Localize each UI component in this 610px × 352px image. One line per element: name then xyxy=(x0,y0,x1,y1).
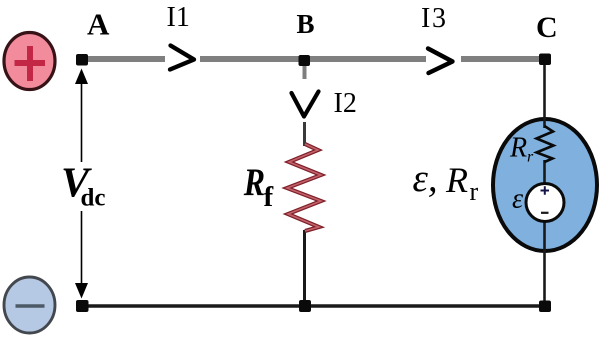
Vdc measuring arrow lower line xyxy=(81,211,83,288)
emf minus mark xyxy=(541,212,549,214)
wire top segment I1 to B xyxy=(200,56,303,62)
resistor Rf highlight xyxy=(287,144,321,231)
current arrow I2 xyxy=(292,92,319,117)
battery ellipse (real battery with emf and internal resistance) xyxy=(493,119,597,251)
svg-text:I1: I1 xyxy=(167,2,190,33)
wire from resistor Rf to bottom node xyxy=(303,230,306,304)
svg-text:R: R xyxy=(509,133,527,164)
bottom-left junction dot xyxy=(76,300,89,312)
wire from node C down into battery xyxy=(543,62,546,128)
node B junction dot xyxy=(299,55,311,66)
svg-text:R: R xyxy=(445,160,468,200)
resistor Rf (zigzag) xyxy=(287,144,321,231)
svg-text:dc: dc xyxy=(81,185,106,212)
bottom-right junction dot xyxy=(539,301,551,313)
svg-text:R: R xyxy=(243,160,265,204)
terminal plus (pink circle) xyxy=(4,33,55,90)
wire from I2 arrow to resistor Rf xyxy=(303,122,306,146)
wire top segment A to I1 xyxy=(80,56,165,62)
current arrow I1 xyxy=(170,46,194,70)
node C junction dot xyxy=(539,54,551,66)
emf source circle xyxy=(526,184,564,222)
svg-text:r: r xyxy=(470,177,479,206)
wire top segment I3 to C xyxy=(461,56,545,62)
svg-text:C: C xyxy=(536,11,558,44)
bottom-middle junction dot xyxy=(299,300,311,312)
wire bottom horizontal xyxy=(80,304,547,308)
Vdc measuring arrow upper line xyxy=(81,72,83,162)
terminal minus sign xyxy=(16,304,45,308)
resistor Rr (zigzag inside battery) xyxy=(537,126,554,162)
node A junction dot xyxy=(76,54,88,66)
wire from Rr to emf source xyxy=(543,160,546,184)
svg-text:A: A xyxy=(87,7,110,42)
terminal plus sign xyxy=(15,46,46,81)
terminal minus (blue circle) xyxy=(4,277,55,333)
emf plus mark xyxy=(541,186,550,195)
Vdc arrowhead down at bottom node xyxy=(75,283,88,299)
wire top segment B to I3 xyxy=(305,56,426,62)
svg-text:r: r xyxy=(527,149,534,166)
svg-text:ε: ε xyxy=(512,184,523,215)
svg-text:f: f xyxy=(264,181,274,213)
svg-text:I2: I2 xyxy=(334,88,357,119)
wire stub below node B xyxy=(303,62,307,79)
current arrow I3 xyxy=(428,49,453,74)
Vdc arrowhead up at node A xyxy=(75,69,88,85)
svg-text:B: B xyxy=(297,9,315,39)
svg-text:ε,: ε, xyxy=(413,157,438,200)
svg-text:I3: I3 xyxy=(421,3,446,34)
wire from emf source to bottom wire xyxy=(543,220,546,306)
